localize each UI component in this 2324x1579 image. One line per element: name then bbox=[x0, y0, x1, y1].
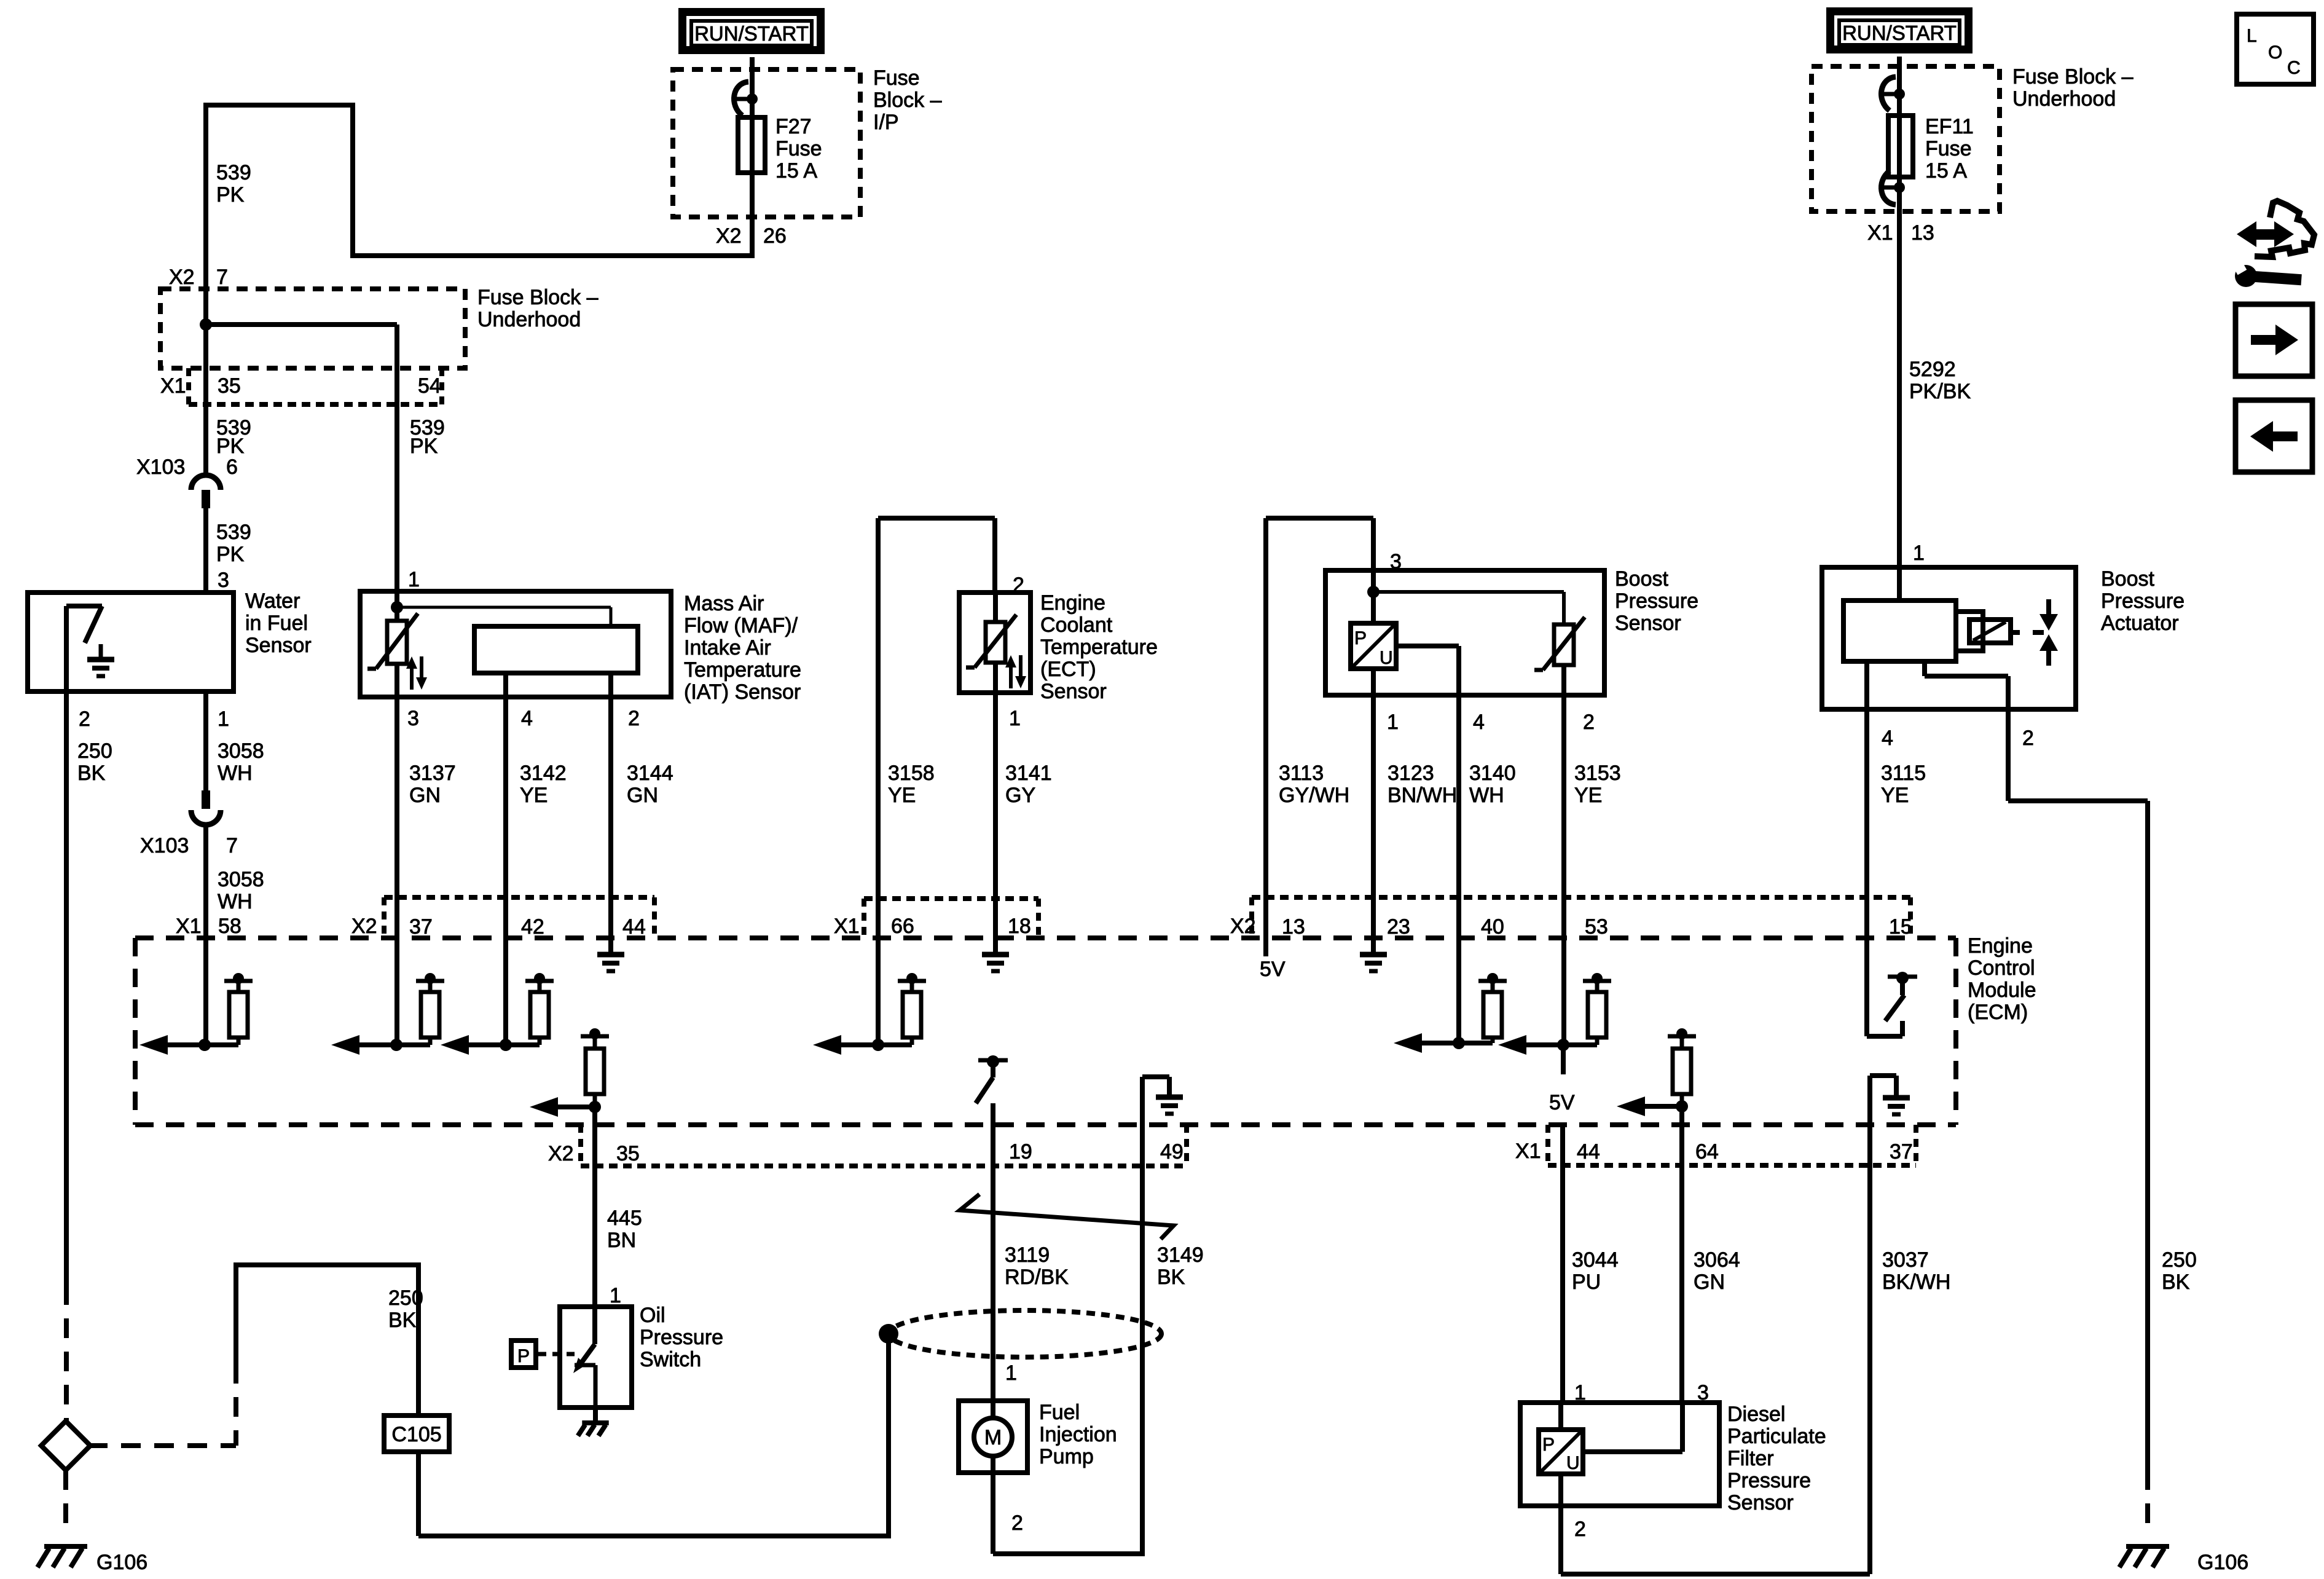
svg-text:X2: X2 bbox=[548, 1142, 574, 1165]
svg-text:1: 1 bbox=[1574, 1381, 1586, 1404]
svg-text:Pressure: Pressure bbox=[1727, 1469, 1811, 1492]
svg-text:1: 1 bbox=[1005, 1361, 1017, 1385]
svg-text:Water: Water bbox=[245, 589, 300, 613]
svg-text:Fuse: Fuse bbox=[1925, 137, 1972, 160]
svg-text:1: 1 bbox=[408, 568, 420, 591]
svg-text:Module: Module bbox=[1968, 979, 2036, 1002]
svg-text:Switch: Switch bbox=[640, 1348, 701, 1371]
svg-text:44: 44 bbox=[622, 915, 646, 939]
svg-text:3119: 3119 bbox=[1005, 1243, 1050, 1267]
svg-text:RUN/START: RUN/START bbox=[694, 22, 809, 45]
svg-text:P: P bbox=[517, 1346, 530, 1366]
svg-text:4: 4 bbox=[1473, 711, 1485, 734]
svg-text:Oil: Oil bbox=[640, 1304, 665, 1327]
svg-text:Fuse: Fuse bbox=[873, 66, 920, 90]
svg-text:(ECT): (ECT) bbox=[1040, 658, 1096, 681]
svg-text:BK: BK bbox=[388, 1309, 417, 1332]
svg-text:WH: WH bbox=[218, 762, 253, 785]
svg-text:G106: G106 bbox=[2197, 1551, 2248, 1574]
svg-text:445: 445 bbox=[607, 1207, 642, 1230]
svg-text:Fuse Block –: Fuse Block – bbox=[477, 286, 599, 309]
svg-text:L: L bbox=[2247, 26, 2257, 46]
svg-text:GN: GN bbox=[627, 784, 658, 807]
svg-text:35: 35 bbox=[218, 374, 241, 398]
svg-text:64: 64 bbox=[1695, 1140, 1719, 1164]
svg-text:3158: 3158 bbox=[888, 762, 935, 785]
svg-text:539: 539 bbox=[216, 521, 251, 544]
svg-text:EF11: EF11 bbox=[1925, 115, 1974, 138]
svg-text:Sensor: Sensor bbox=[1040, 680, 1107, 703]
svg-text:C: C bbox=[2287, 58, 2301, 78]
svg-text:2: 2 bbox=[2022, 726, 2034, 750]
svg-text:Sensor: Sensor bbox=[245, 634, 312, 657]
svg-text:2: 2 bbox=[1583, 711, 1595, 734]
svg-text:6: 6 bbox=[226, 455, 238, 479]
svg-text:3149: 3149 bbox=[1157, 1243, 1204, 1267]
svg-text:Sensor: Sensor bbox=[1615, 612, 1681, 635]
svg-text:3058: 3058 bbox=[218, 739, 264, 763]
svg-text:3: 3 bbox=[407, 707, 419, 730]
svg-text:GN: GN bbox=[1694, 1270, 1725, 1294]
svg-text:3044: 3044 bbox=[1572, 1248, 1619, 1272]
svg-text:2: 2 bbox=[628, 707, 640, 730]
svg-text:GY/WH: GY/WH bbox=[1279, 784, 1349, 807]
svg-text:PK: PK bbox=[410, 435, 438, 458]
svg-text:44: 44 bbox=[1577, 1140, 1600, 1164]
svg-text:15 A: 15 A bbox=[1925, 159, 1967, 183]
svg-text:U: U bbox=[1380, 648, 1393, 668]
svg-text:3141: 3141 bbox=[1005, 762, 1052, 785]
svg-text:P: P bbox=[1542, 1435, 1555, 1455]
svg-text:13: 13 bbox=[1282, 915, 1305, 939]
svg-text:F27: F27 bbox=[775, 115, 812, 138]
svg-text:58: 58 bbox=[218, 915, 241, 938]
svg-text:3058: 3058 bbox=[218, 868, 264, 891]
svg-text:X1: X1 bbox=[834, 915, 860, 938]
svg-text:2: 2 bbox=[1574, 1518, 1586, 1541]
svg-text:1: 1 bbox=[610, 1284, 621, 1307]
svg-text:18: 18 bbox=[1008, 915, 1031, 938]
svg-text:250: 250 bbox=[2162, 1248, 2197, 1272]
svg-text:1: 1 bbox=[1009, 707, 1021, 730]
svg-text:539: 539 bbox=[216, 161, 251, 184]
svg-text:P: P bbox=[1354, 628, 1367, 648]
svg-text:Temperature: Temperature bbox=[1040, 636, 1158, 659]
svg-text:BK: BK bbox=[1157, 1266, 1185, 1289]
svg-text:(IAT) Sensor: (IAT) Sensor bbox=[684, 680, 801, 704]
svg-text:BK/WH: BK/WH bbox=[1882, 1270, 1950, 1294]
svg-text:Boost: Boost bbox=[2101, 567, 2154, 591]
svg-text:3037: 3037 bbox=[1882, 1248, 1929, 1272]
svg-text:Pressure: Pressure bbox=[1615, 589, 1698, 613]
svg-text:Injection: Injection bbox=[1039, 1423, 1117, 1446]
svg-text:250: 250 bbox=[388, 1286, 423, 1310]
svg-text:Boost: Boost bbox=[1615, 567, 1668, 591]
svg-text:X1: X1 bbox=[1867, 221, 1893, 245]
svg-text:Particulate: Particulate bbox=[1727, 1425, 1826, 1448]
svg-text:5V: 5V bbox=[1549, 1091, 1575, 1114]
svg-text:X2: X2 bbox=[1230, 915, 1256, 938]
svg-text:WH: WH bbox=[1469, 784, 1504, 807]
svg-text:I/P: I/P bbox=[873, 111, 899, 134]
svg-text:37: 37 bbox=[409, 915, 433, 939]
svg-text:Diesel: Diesel bbox=[1727, 1403, 1785, 1426]
svg-text:53: 53 bbox=[1585, 915, 1608, 939]
svg-text:Engine: Engine bbox=[1040, 591, 1105, 615]
svg-text:Sensor: Sensor bbox=[1727, 1491, 1794, 1514]
svg-text:3142: 3142 bbox=[520, 762, 567, 785]
svg-text:Mass Air: Mass Air bbox=[684, 592, 764, 615]
svg-text:49: 49 bbox=[1160, 1140, 1184, 1164]
svg-text:15 A: 15 A bbox=[775, 159, 817, 183]
svg-text:19: 19 bbox=[1009, 1140, 1032, 1164]
svg-text:7: 7 bbox=[226, 834, 238, 857]
svg-text:Coolant: Coolant bbox=[1040, 613, 1113, 637]
svg-text:PK/BK: PK/BK bbox=[1909, 380, 1971, 403]
svg-text:X2: X2 bbox=[351, 915, 377, 938]
svg-text:7: 7 bbox=[216, 266, 228, 289]
svg-text:YE: YE bbox=[520, 784, 548, 807]
svg-text:3144: 3144 bbox=[627, 762, 673, 785]
svg-text:X1: X1 bbox=[160, 374, 186, 398]
svg-text:23: 23 bbox=[1387, 915, 1410, 939]
svg-text:1: 1 bbox=[1387, 711, 1399, 734]
svg-text:BK: BK bbox=[77, 762, 106, 785]
svg-text:3064: 3064 bbox=[1694, 1248, 1740, 1272]
svg-text:Flow (MAF)/: Flow (MAF)/ bbox=[684, 614, 798, 637]
svg-text:1: 1 bbox=[1913, 541, 1925, 565]
svg-text:YE: YE bbox=[1881, 784, 1909, 807]
svg-text:RD/BK: RD/BK bbox=[1005, 1266, 1069, 1289]
svg-text:Intake Air: Intake Air bbox=[684, 636, 771, 660]
svg-text:3: 3 bbox=[218, 569, 229, 592]
svg-text:3115: 3115 bbox=[1881, 762, 1926, 785]
svg-text:M: M bbox=[984, 1426, 1002, 1449]
svg-text:PK: PK bbox=[216, 543, 245, 566]
svg-text:Temperature: Temperature bbox=[684, 658, 801, 682]
svg-text:GN: GN bbox=[409, 784, 441, 807]
svg-text:G106: G106 bbox=[96, 1551, 147, 1574]
svg-text:Fuse: Fuse bbox=[775, 137, 822, 160]
svg-text:YE: YE bbox=[1574, 784, 1602, 807]
svg-text:Control: Control bbox=[1968, 956, 2035, 980]
svg-text:26: 26 bbox=[763, 224, 787, 248]
svg-text:Actuator: Actuator bbox=[2101, 612, 2179, 635]
svg-text:X1: X1 bbox=[1515, 1140, 1541, 1163]
svg-text:in Fuel: in Fuel bbox=[245, 612, 308, 635]
svg-text:4: 4 bbox=[1882, 726, 1893, 750]
svg-text:3153: 3153 bbox=[1574, 762, 1621, 785]
svg-text:X103: X103 bbox=[140, 834, 189, 857]
svg-text:BK: BK bbox=[2162, 1270, 2190, 1294]
svg-text:Underhood: Underhood bbox=[2012, 87, 2116, 111]
svg-text:37: 37 bbox=[1890, 1140, 1913, 1164]
svg-text:PU: PU bbox=[1572, 1270, 1601, 1294]
svg-text:Filter: Filter bbox=[1727, 1447, 1774, 1470]
svg-text:35: 35 bbox=[616, 1142, 640, 1165]
svg-text:O: O bbox=[2268, 42, 2282, 63]
svg-text:(ECM): (ECM) bbox=[1968, 1001, 2028, 1024]
svg-text:3123: 3123 bbox=[1388, 762, 1434, 785]
svg-text:Pressure: Pressure bbox=[2101, 589, 2185, 613]
svg-text:RUN/START: RUN/START bbox=[1842, 22, 1957, 44]
svg-text:2: 2 bbox=[1011, 1511, 1023, 1535]
svg-text:2: 2 bbox=[79, 707, 90, 731]
svg-text:Block –: Block – bbox=[873, 89, 942, 112]
svg-text:5V: 5V bbox=[1260, 958, 1286, 981]
svg-text:40: 40 bbox=[1481, 915, 1504, 939]
svg-text:3: 3 bbox=[1697, 1381, 1709, 1404]
svg-text:3140: 3140 bbox=[1469, 762, 1516, 785]
svg-text:WH: WH bbox=[218, 890, 253, 913]
svg-text:Underhood: Underhood bbox=[477, 308, 581, 331]
svg-text:GY: GY bbox=[1005, 784, 1035, 807]
svg-text:BN: BN bbox=[607, 1229, 636, 1252]
svg-text:3137: 3137 bbox=[409, 762, 456, 785]
svg-text:4: 4 bbox=[521, 707, 533, 730]
svg-text:54: 54 bbox=[418, 374, 441, 398]
svg-text:U: U bbox=[1566, 1453, 1580, 1473]
svg-text:1: 1 bbox=[218, 707, 229, 731]
svg-text:YE: YE bbox=[888, 784, 916, 807]
svg-text:15: 15 bbox=[1889, 915, 1912, 939]
svg-text:5292: 5292 bbox=[1909, 358, 1956, 381]
svg-text:42: 42 bbox=[521, 915, 544, 939]
svg-text:PK: PK bbox=[216, 435, 245, 458]
svg-text:BN/WH: BN/WH bbox=[1388, 784, 1457, 807]
svg-text:X2: X2 bbox=[716, 224, 742, 248]
svg-text:3113: 3113 bbox=[1279, 762, 1324, 785]
svg-text:X103: X103 bbox=[136, 455, 185, 479]
svg-text:Fuel: Fuel bbox=[1039, 1401, 1080, 1424]
svg-text:13: 13 bbox=[1911, 221, 1934, 245]
svg-text:250: 250 bbox=[77, 739, 112, 763]
svg-text:66: 66 bbox=[891, 915, 914, 938]
svg-text:Pressure: Pressure bbox=[640, 1326, 723, 1349]
svg-text:Pump: Pump bbox=[1039, 1445, 1094, 1468]
svg-text:C105: C105 bbox=[391, 1423, 441, 1446]
svg-text:Fuse Block –: Fuse Block – bbox=[2012, 65, 2134, 89]
svg-text:PK: PK bbox=[216, 183, 245, 207]
svg-text:X1: X1 bbox=[176, 915, 202, 938]
svg-text:X2: X2 bbox=[169, 266, 195, 289]
svg-text:Engine: Engine bbox=[1968, 934, 2033, 958]
